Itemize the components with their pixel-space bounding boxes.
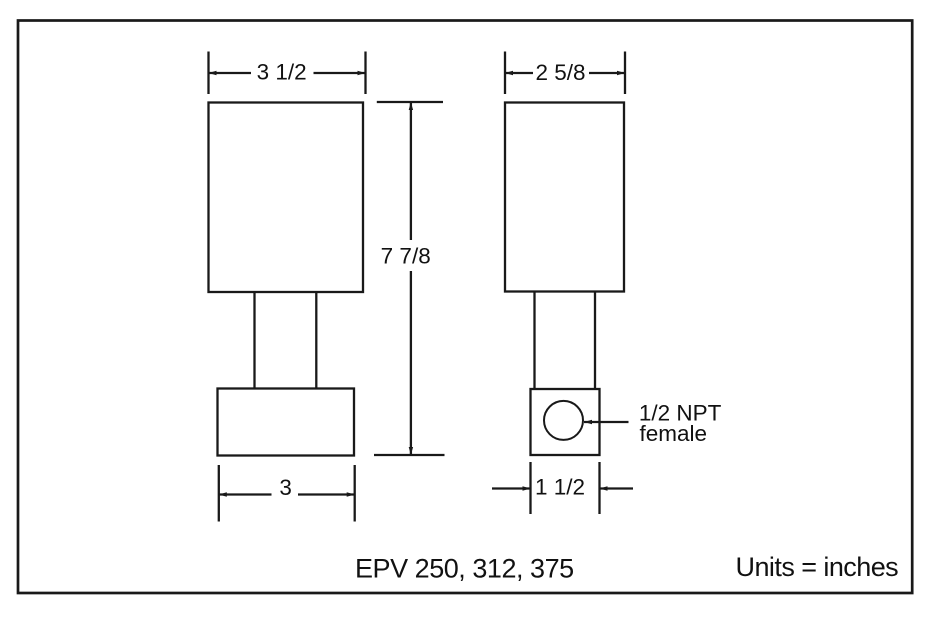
- dimension 1 1/2 extension line right: [598, 462, 600, 514]
- svg-text:1 1/2: 1 1/2: [535, 475, 585, 500]
- dimension 3 extension line right: [354, 465, 356, 522]
- front view stem left line: [253, 292, 255, 389]
- dimension 7 7/8 line upper segment: [410, 102, 412, 240]
- svg-text:Units = inches: Units = inches: [736, 552, 899, 582]
- dimension 3 line left segment: [219, 493, 272, 495]
- arrowhead 1 1/2 left (outside pointing right): [523, 486, 531, 490]
- arrowhead 2 5/8 left: [505, 71, 513, 75]
- svg-text:3: 3: [279, 475, 292, 500]
- svg-text:2 5/8: 2 5/8: [535, 60, 585, 85]
- arrowhead leader left: [584, 420, 592, 424]
- dimension 1 1/2 extension line left: [529, 462, 531, 514]
- svg-text:3 1/2: 3 1/2: [257, 60, 307, 85]
- dimension 3 1/2 line left segment: [209, 72, 252, 74]
- arrowhead 3 1/2 right: [358, 71, 366, 75]
- dimension 3 extension line left: [218, 465, 220, 522]
- dimension 2 5/8 line left segment: [505, 72, 533, 74]
- front view base: [218, 389, 355, 456]
- arrowhead 3 left: [219, 492, 227, 496]
- arrowhead 1 1/2 right (outside pointing left): [600, 486, 608, 490]
- dimension 2 5/8 line right segment: [589, 72, 625, 74]
- leader line to port label: [584, 421, 629, 423]
- arrowhead 2 5/8 right: [617, 71, 625, 75]
- dimension 3 1/2 extension line right: [364, 52, 366, 95]
- dimension 3 1/2 extension line left: [207, 52, 209, 95]
- dimension 7 7/8 extension line top: [377, 101, 443, 103]
- dimension 2 5/8 extension line right: [624, 52, 626, 95]
- front view stem right line: [315, 292, 317, 389]
- side view port block: [531, 389, 600, 455]
- dimension 1 1/2 tail right: [600, 487, 634, 489]
- arrowhead 3 1/2 left: [209, 71, 217, 75]
- arrowhead 7 7/8 bottom: [409, 447, 413, 455]
- side view body: [505, 103, 624, 292]
- dimension 3 line right segment: [298, 493, 355, 495]
- arrowhead 3 right: [347, 492, 355, 496]
- arrowhead 7 7/8 top: [409, 102, 413, 110]
- dimension 7 7/8 extension line bottom: [374, 454, 445, 456]
- dimension 1 1/2 tail left: [492, 487, 531, 489]
- svg-text:EPV 250, 312, 375: EPV 250, 312, 375: [355, 554, 574, 584]
- dimension 2 5/8 extension line left: [504, 52, 506, 95]
- port hole circle: [544, 401, 583, 440]
- side view stem left line: [533, 292, 535, 390]
- front view body: [209, 103, 364, 293]
- svg-text:7 7/8: 7 7/8: [381, 244, 431, 269]
- dimension 3 1/2 line right segment: [314, 72, 366, 74]
- dimension 7 7/8 line lower segment: [410, 271, 412, 455]
- side view stem right line: [594, 292, 596, 390]
- svg-text:female: female: [640, 421, 708, 446]
